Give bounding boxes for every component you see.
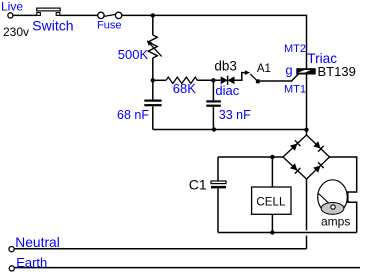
wire bottom rail [218, 232, 357, 234]
meter gray scale [321, 203, 344, 215]
svg-text:MT2: MT2 [284, 43, 306, 55]
capacitor C1 (polarized) [211, 181, 226, 184]
wire Live to switch [13, 14, 37, 16]
svg-text:A1: A1 [257, 63, 271, 75]
wire junction to 68K [153, 79, 166, 81]
svg-text:Neutral: Neutral [15, 235, 59, 250]
wire rail to bridge top vertex [306, 130, 308, 136]
wire diac to arrow [235, 73, 246, 81]
node junction dot at 33nF [211, 78, 215, 82]
svg-text:C1: C1 [189, 177, 207, 193]
capacitor 68 nF [152, 80, 154, 99]
bridge rectifier edges [283, 135, 307, 157]
wire 68K to diac junction [197, 79, 220, 81]
svg-text:500K: 500K [118, 47, 149, 62]
connector A1 arrow [245, 70, 250, 75]
wire A1 to gate [260, 73, 299, 81]
capacitor 33 nF [212, 80, 214, 100]
triac U1 body [296, 68, 315, 74]
svg-text:MT1: MT1 [284, 84, 306, 96]
wire triac MT1 down to rail [306, 74, 308, 129]
switch S1 (push switch) [37, 13, 41, 16]
node junction dot bridge top on rail [304, 128, 308, 132]
node junction dot under fuse [151, 13, 155, 17]
wire down to C1 [217, 157, 219, 181]
bridge diode D4 [313, 166, 320, 173]
svg-text:amps: amps [321, 214, 350, 228]
wire switch to fuse [60, 14, 98, 16]
node Neutral terminal [9, 247, 14, 252]
node Earth terminal [9, 266, 14, 271]
meter pivot [331, 205, 335, 209]
connector A1 lever and terminal [250, 74, 256, 80]
svg-text:BT139: BT139 [318, 64, 356, 79]
meter needle [319, 194, 332, 206]
node junction dot 33nF on rail [212, 127, 216, 131]
svg-text:Fuse: Fuse [97, 20, 121, 32]
wire bridge left vertex to C1 branch [218, 156, 283, 158]
wire junction down to pot [152, 15, 154, 35]
node junction dot CELL top [270, 155, 274, 159]
wire fuse to top-right corner [122, 15, 307, 68]
svg-text:CELL: CELL [256, 195, 286, 208]
node Live terminal [8, 13, 13, 18]
resistor 68K [166, 77, 197, 83]
svg-text:Earth: Earth [16, 255, 47, 270]
svg-text:68K: 68K [173, 81, 196, 96]
svg-text:230v: 230v [3, 25, 29, 39]
wire pot to mid junction [152, 58, 154, 80]
wire CELL bottom lead [271, 214, 273, 232]
potentiometer 500K [148, 35, 157, 58]
fuse F1 [98, 12, 104, 18]
diac db3 [221, 76, 228, 84]
wire bridge right vertex to right rail [330, 157, 357, 233]
wire Earth line [14, 267, 360, 269]
component CELL box [252, 187, 291, 214]
node junction dot mid-left [151, 78, 155, 82]
svg-text:33 nF: 33 nF [219, 108, 251, 122]
svg-text:Live: Live [1, 0, 23, 14]
bridge diode D3 [290, 163, 297, 170]
wire bridge bottom down (crosses rail) [306, 179, 308, 230]
wire lower rail (caps to bridge top) [153, 129, 307, 131]
bridge diode D1 [290, 144, 297, 151]
node junction dot CELL bottom [270, 230, 274, 234]
wire Neutral line [14, 248, 306, 250]
svg-text:g: g [285, 62, 292, 77]
bridge diode D2 [313, 141, 320, 148]
svg-text:Switch: Switch [32, 17, 73, 33]
meter amps body [318, 180, 348, 214]
svg-text:db3: db3 [214, 59, 237, 74]
wire CELL top lead [271, 157, 273, 187]
svg-text:68 nF: 68 nF [117, 108, 149, 122]
svg-text:diac: diac [215, 83, 239, 98]
